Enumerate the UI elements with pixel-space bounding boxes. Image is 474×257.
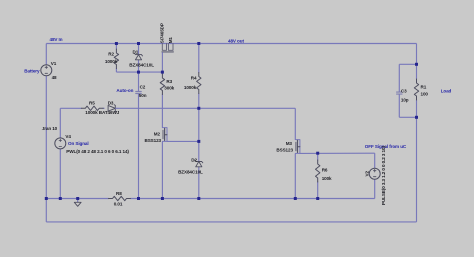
- svg-text:100: 100: [421, 92, 429, 97]
- svg-text:PULSE(0 3.3 1.2 0 0 0.2 3 10): PULSE(0 3.3 1.2 0 0 0.2 3 10): [381, 146, 386, 205]
- svg-text:M2: M2: [154, 132, 161, 137]
- svg-text:10p: 10p: [401, 98, 409, 103]
- svg-text:1000k BAT46WJ: 1000k BAT46WJ: [85, 110, 119, 115]
- svg-text:M1: M1: [168, 37, 173, 44]
- svg-text:50n: 50n: [139, 93, 147, 98]
- svg-text:D1: D1: [133, 49, 139, 54]
- svg-text:Auto-on: Auto-on: [116, 88, 133, 93]
- svg-text:Load: Load: [441, 89, 452, 94]
- svg-text:OFF Signal from uC: OFF Signal from uC: [365, 144, 407, 149]
- svg-text:R2: R2: [108, 51, 114, 56]
- svg-text:48: 48: [52, 75, 57, 80]
- svg-text:Battery: Battery: [24, 68, 40, 73]
- svg-text:R5: R5: [89, 100, 95, 105]
- svg-text:BZX84C10L: BZX84C10L: [129, 62, 154, 67]
- svg-text:R3: R3: [166, 79, 172, 84]
- svg-text:On Signal: On Signal: [68, 141, 89, 146]
- svg-text:C3: C3: [401, 88, 407, 93]
- svg-text:48V In: 48V In: [50, 37, 63, 42]
- svg-text:M3: M3: [286, 141, 293, 146]
- svg-text:BZX84C10L: BZX84C10L: [178, 170, 203, 175]
- svg-text:BSS123: BSS123: [145, 138, 162, 143]
- svg-text:0.01: 0.01: [114, 202, 123, 207]
- svg-text:1000k: 1000k: [105, 59, 118, 64]
- svg-text:300k: 300k: [164, 86, 174, 91]
- svg-text:BSS123: BSS123: [276, 148, 293, 153]
- svg-text:D3: D3: [108, 100, 114, 105]
- svg-text:48V out: 48V out: [228, 39, 244, 44]
- svg-text:V2: V2: [365, 171, 370, 177]
- svg-text:PWL(0 48 2 48 2.1 0 6 0 6.1 14: PWL(0 48 2 48 2.1 0 6 0 6.1 14): [66, 149, 129, 154]
- svg-text:R4: R4: [191, 75, 197, 80]
- svg-text:.tran 10: .tran 10: [42, 126, 58, 131]
- svg-text:1000k: 1000k: [184, 85, 197, 90]
- svg-text:100k: 100k: [322, 176, 332, 181]
- svg-text:R1: R1: [421, 84, 427, 89]
- svg-text:V4: V4: [65, 134, 71, 139]
- svg-text:D2: D2: [191, 157, 197, 162]
- svg-text:R6: R6: [322, 167, 328, 172]
- svg-text:V1: V1: [51, 61, 57, 66]
- svg-text:R8: R8: [116, 191, 122, 196]
- svg-text:C2: C2: [140, 85, 146, 90]
- svg-text:Si7465DP: Si7465DP: [160, 23, 165, 43]
